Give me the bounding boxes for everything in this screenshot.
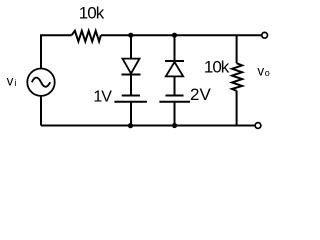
svg-text:o: o <box>265 68 270 78</box>
svg-text:v: v <box>257 64 264 79</box>
svg-text:10k: 10k <box>79 4 105 23</box>
svg-text:10k: 10k <box>204 58 230 77</box>
svg-text:1V: 1V <box>93 89 112 106</box>
svg-text:2V: 2V <box>190 85 211 104</box>
svg-text:i: i <box>14 78 16 88</box>
svg-text:v: v <box>7 73 14 88</box>
